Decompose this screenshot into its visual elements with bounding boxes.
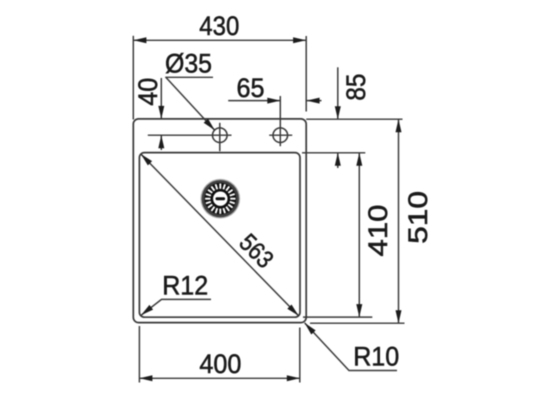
dim 85 dimension line upper segment <box>337 67 339 119</box>
dim 40 dimension line lower segment <box>160 135 162 150</box>
arrow 430 right <box>293 37 306 43</box>
svg-text:510: 510 <box>403 191 433 244</box>
svg-text:R10: R10 <box>353 342 399 372</box>
dim 400 extension line left <box>138 326 140 383</box>
dim 400 extension line right <box>299 328 301 383</box>
dim 65 dimension line right segment <box>307 100 322 102</box>
svg-text:85: 85 <box>341 74 371 101</box>
svg-text:563: 563 <box>234 229 279 274</box>
drain strainer slots <box>205 184 235 214</box>
arrow 410 bottom (points down) <box>356 304 362 317</box>
diagonal 563 dimension line <box>141 154 299 316</box>
label 510 (rotated) <box>403 191 433 244</box>
drain outer halo ring <box>201 179 241 219</box>
dim 410 dimension line <box>358 153 360 317</box>
arrow 510 bottom (points down) <box>396 310 402 323</box>
drain knob bar <box>216 197 226 200</box>
inner bowl rectangle <box>139 153 300 318</box>
arrow R12 leader <box>139 305 153 318</box>
svg-text:400: 400 <box>199 349 241 379</box>
drain center white disc <box>213 192 227 206</box>
leader underline for diameter 35 <box>165 76 213 78</box>
outer sink rim rectangle <box>133 119 306 323</box>
label 410 (rotated) <box>363 205 393 257</box>
arrow R10 leader <box>302 321 315 335</box>
arrow 85 top (points down) <box>335 106 341 119</box>
arrow 65 left (points right) <box>267 98 280 104</box>
arrow 65 right (points left) <box>307 98 320 104</box>
svg-text:410: 410 <box>363 205 393 257</box>
R12 leader diagonal <box>141 299 211 315</box>
faucet hole 1 centerline vertical <box>219 123 221 151</box>
dim 430 dimension line <box>133 39 306 41</box>
arrow 40 bottom (points up) <box>158 135 164 148</box>
label 40 (rotated) <box>133 78 163 106</box>
arrow 40 top (points down) <box>158 106 164 119</box>
svg-text:40: 40 <box>133 78 163 106</box>
dim 510 dimension line <box>398 119 400 323</box>
extension of inner bowl top edge to the right <box>302 152 365 154</box>
drain outer ring <box>202 180 239 217</box>
leader line for diameter 35 <box>166 77 215 130</box>
svg-text:430: 430 <box>199 11 239 41</box>
arrow 400 right <box>287 375 300 381</box>
extension of outer rim bottom edge to the right <box>310 322 405 324</box>
R10 leader diagonal <box>305 323 397 371</box>
drain spoke disc <box>204 183 236 215</box>
drain / strainer assembly <box>201 179 241 219</box>
faucet hole 2 centerline vertical / extension for 65 dim <box>279 96 281 146</box>
arrow 563 bottom-right <box>287 304 300 317</box>
dim 85 dimension line lower segment <box>337 153 339 168</box>
dim 430 extension line right <box>305 36 307 112</box>
faucet hole 2 <box>273 128 288 143</box>
faucet hole 1 <box>213 128 228 143</box>
label 563 (rotated 45deg along diagonal) <box>234 229 279 274</box>
faucet hole 2 centerline horizontal <box>269 134 292 136</box>
svg-text:R12: R12 <box>162 270 208 300</box>
label 85 (rotated) <box>341 74 371 101</box>
arrow 410 top (points up) <box>356 153 362 166</box>
dim 400 dimension line <box>139 377 299 379</box>
arrow 85 bottom (points up) <box>335 153 341 166</box>
svg-text:65: 65 <box>237 73 265 103</box>
faucet hole 1 centerline horizontal <box>148 134 232 136</box>
dim 65 dimension line left segment <box>228 100 280 102</box>
svg-text:Ø35: Ø35 <box>165 49 212 79</box>
dim 430 extension line left <box>132 36 134 120</box>
arrow 400 left <box>139 375 152 381</box>
extension of outer rim top edge to the right <box>306 118 402 120</box>
arrow 430 left <box>133 37 146 43</box>
extension of inner bowl bottom edge to the right <box>303 316 372 318</box>
arrow 563 top-left <box>139 152 152 165</box>
arrow 510 top (points up) <box>396 119 402 132</box>
dim 40 dimension line upper segment <box>160 78 162 119</box>
arrow leader d35 <box>204 119 217 133</box>
